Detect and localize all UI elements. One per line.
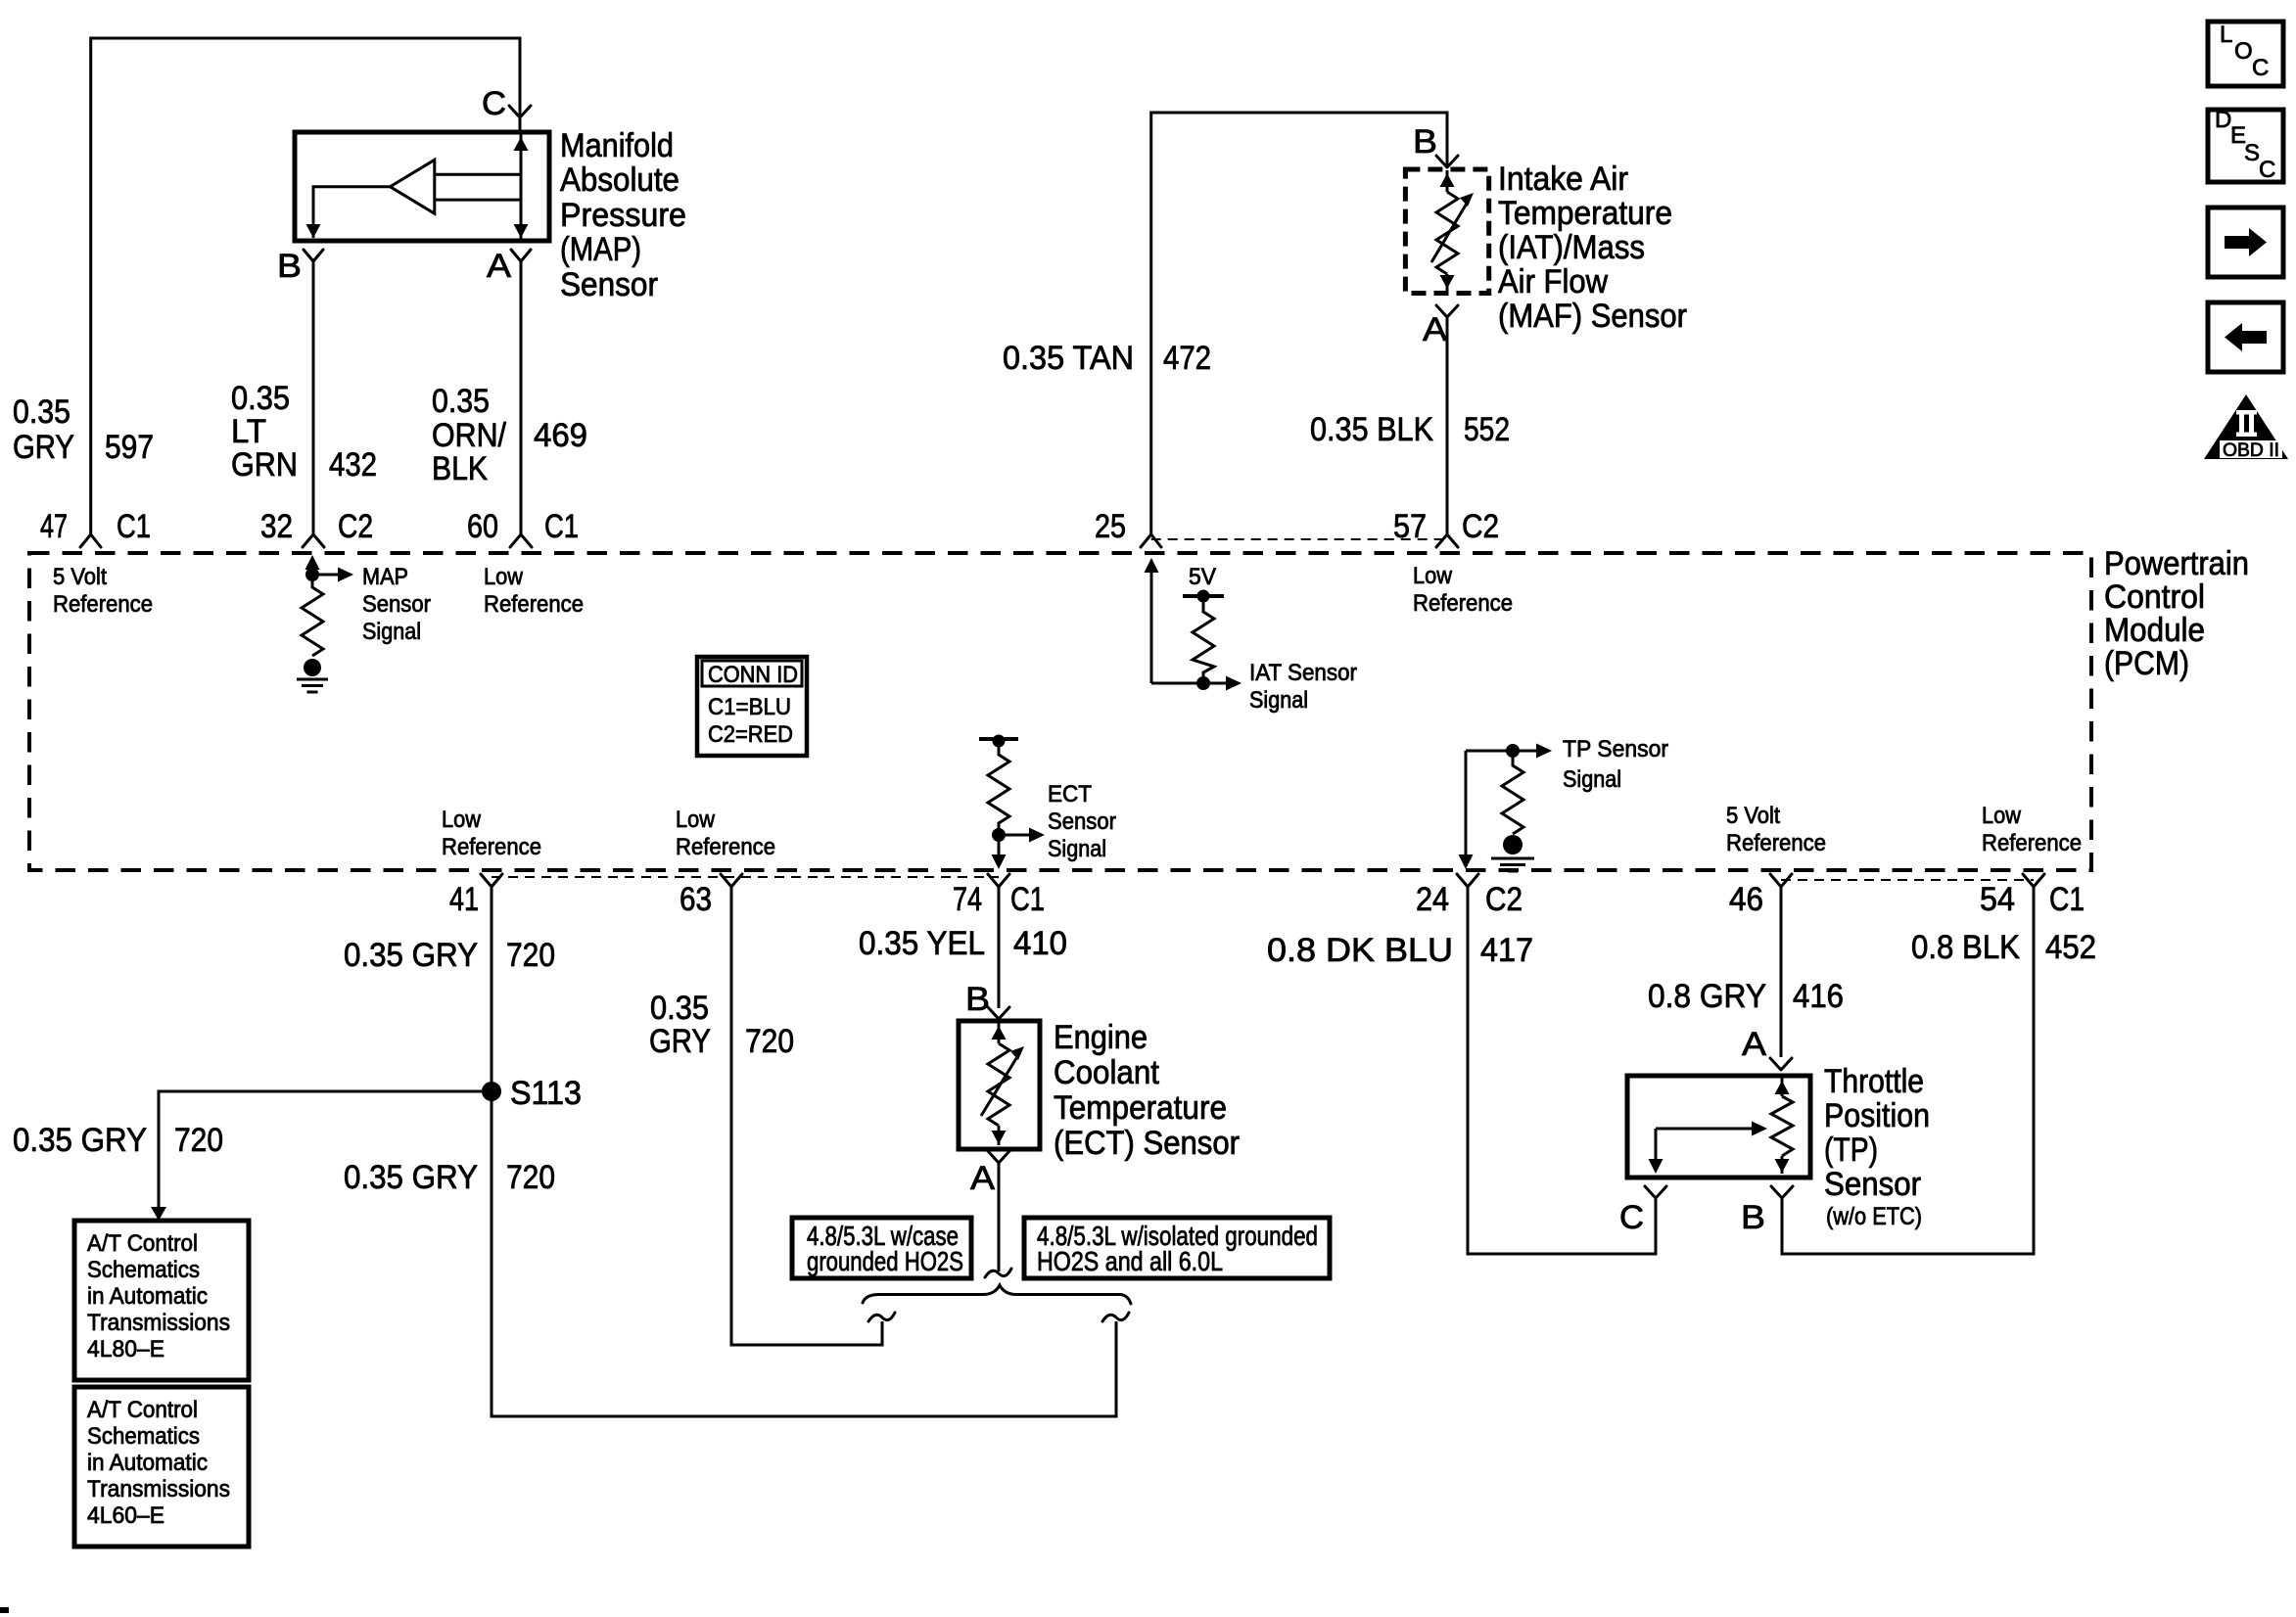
svg-text:(w/o ETC): (w/o ETC) <box>1826 1203 1922 1230</box>
svg-text:IAT Sensor: IAT Sensor <box>1249 660 1357 686</box>
svg-text:S113: S113 <box>510 1075 582 1112</box>
svg-text:C: C <box>1619 1199 1644 1236</box>
pin 47 C1 connector at PCM <box>80 534 101 547</box>
pin 25 connector at PCM <box>1141 534 1161 547</box>
svg-text:A/T Control: A/T Control <box>87 1230 198 1257</box>
svg-text:A: A <box>970 1160 995 1197</box>
svg-text:ECT: ECT <box>1048 781 1092 808</box>
svg-text:Reference: Reference <box>1413 590 1513 617</box>
C1 connector dashed link (pins 41-74) <box>492 876 999 878</box>
svg-text:B: B <box>965 981 990 1018</box>
svg-text:Powertrain: Powertrain <box>2104 545 2249 582</box>
wire 452 (low reference, pin 54 to TP B) <box>1782 887 2034 1254</box>
svg-text:OBD II: OBD II <box>2223 440 2279 461</box>
svg-text:Engine: Engine <box>1054 1019 1148 1056</box>
svg-text:C2: C2 <box>1485 881 1523 918</box>
pin B of MAP sensor (connector) <box>304 250 323 261</box>
wire 720 (low reference, pin 63 to brace) <box>731 887 882 1345</box>
pin 57 C2 connector at PCM <box>1436 534 1458 547</box>
MAP internal top input wire <box>435 173 521 176</box>
svg-text:(TP): (TP) <box>1824 1132 1878 1169</box>
svg-text:Transmissions: Transmissions <box>87 1476 230 1502</box>
svg-text:Throttle: Throttle <box>1824 1063 1924 1100</box>
resistor R-IAT (PCM pull-up) <box>1193 596 1214 683</box>
IAT/MAF sensor dashed box <box>1405 169 1488 294</box>
MAP internal bottom output wire <box>435 199 521 202</box>
svg-text:54: 54 <box>1980 881 2015 918</box>
svg-text:Reference: Reference <box>442 834 541 860</box>
pin 54 C1 connector at PCM <box>2023 874 2044 887</box>
reference box: A/T Control Schematics 4L80-E <box>74 1221 249 1380</box>
MAP sensor box U1 <box>295 132 549 241</box>
svg-text:0.35: 0.35 <box>231 380 290 417</box>
svg-text:0.35 BLK: 0.35 BLK <box>1310 411 1433 448</box>
pin A of TP sensor (connector) <box>1770 1058 1792 1070</box>
TP signal arrow to label <box>1513 750 1536 753</box>
wire break squiggle (left branch) <box>868 1313 895 1321</box>
svg-text:0.35: 0.35 <box>432 383 490 420</box>
svg-text:417: 417 <box>1480 932 1533 969</box>
svg-text:Schematics: Schematics <box>87 1257 200 1283</box>
svg-text:(PCM): (PCM) <box>2104 645 2189 682</box>
svg-text:469: 469 <box>534 417 587 454</box>
svg-text:0.8 DK BLU: 0.8 DK BLU <box>1267 932 1453 969</box>
pin 32 C2 connector at PCM <box>303 534 324 547</box>
node C of MAP sensor (connector) <box>509 106 531 132</box>
svg-text:C2: C2 <box>338 508 373 545</box>
wire 417 (TP signal, pin 24 to TP C) <box>1468 887 1656 1254</box>
svg-text:5 Volt: 5 Volt <box>53 564 107 590</box>
svg-text:GRY: GRY <box>13 429 74 466</box>
svg-text:0.35 GRY: 0.35 GRY <box>13 1122 147 1159</box>
pin B of ECT sensor (connector) <box>988 1007 1009 1019</box>
wire 597 (5V reference, pin 47 to MAP C) <box>91 38 520 534</box>
svg-text:B: B <box>1741 1199 1765 1236</box>
wire 469 (low reference, A to pin 60) <box>520 261 523 534</box>
pin 24 C2 connector at PCM <box>1457 874 1478 887</box>
svg-text:Signal: Signal <box>1249 687 1308 714</box>
MAP internal down arrow to A <box>514 224 529 238</box>
svg-text:A: A <box>1423 311 1447 348</box>
svg-text:552: 552 <box>1464 411 1510 448</box>
svg-text:LT: LT <box>231 413 266 450</box>
svg-text:63: 63 <box>679 881 712 918</box>
pin A of MAP sensor (connector) <box>511 250 531 261</box>
svg-text:BLK: BLK <box>432 450 488 487</box>
svg-text:D: D <box>2215 107 2231 133</box>
svg-text:Low: Low <box>1982 803 2022 829</box>
pin B of IAT/MAF sensor (connector) <box>1436 156 1458 167</box>
svg-text:5 Volt: 5 Volt <box>1726 803 1780 829</box>
wire 720 branch (S113 to A/T schematics) <box>159 1091 492 1208</box>
svg-text:Reference: Reference <box>484 591 584 618</box>
svg-text:C: C <box>2252 55 2269 81</box>
svg-text:4L80–E: 4L80–E <box>87 1336 164 1363</box>
svg-text:Reference: Reference <box>53 591 153 618</box>
pin 60 C1 connector at PCM <box>510 534 532 547</box>
svg-text:Control: Control <box>2104 578 2205 616</box>
scan mark (bottom-left corner artifact) <box>0 1607 9 1613</box>
pin C of TP sensor (connector) <box>1645 1186 1666 1198</box>
svg-text:Position: Position <box>1824 1097 1930 1134</box>
svg-text:0.35 TAN: 0.35 TAN <box>1003 340 1134 377</box>
wire from ECT A down to splice options <box>998 1163 1001 1271</box>
node: ECT signal junction <box>992 828 1006 842</box>
resistor R-TP (PCM pulldown) <box>1502 751 1523 834</box>
pin 41 C1 connector at PCM <box>481 874 502 887</box>
svg-text:Reference: Reference <box>676 834 775 860</box>
IAT thermistor (variable resistor) <box>1446 170 1449 192</box>
svg-text:GRY: GRY <box>649 1023 711 1060</box>
node: MAP signal junction <box>305 568 319 581</box>
PCM module dashed border <box>29 553 2091 870</box>
svg-text:Signal: Signal <box>1563 766 1621 793</box>
svg-text:0.35: 0.35 <box>650 990 709 1027</box>
svg-text:TP Sensor: TP Sensor <box>1563 736 1668 762</box>
svg-text:0.35 GRY: 0.35 GRY <box>344 1159 478 1196</box>
brace (alternatives join) <box>863 1285 1131 1304</box>
wire 432 (MAP signal, B to pin 32) <box>312 261 315 534</box>
svg-text:Sensor: Sensor <box>1048 808 1116 835</box>
pin 63 connector at PCM <box>721 874 742 887</box>
MAP signal input arrow (pin 32) <box>311 560 314 575</box>
svg-text:Manifold: Manifold <box>560 127 674 164</box>
svg-text:Reference: Reference <box>1982 830 2082 856</box>
svg-text:B: B <box>1413 123 1437 161</box>
svg-text:A/T Control: A/T Control <box>87 1397 198 1423</box>
TP wire to pin 24 with down arrow <box>1465 751 1468 855</box>
svg-text:25: 25 <box>1095 508 1126 545</box>
MAP signal arrow to label <box>312 574 338 577</box>
svg-text:Transmissions: Transmissions <box>87 1310 230 1336</box>
svg-text:MAP: MAP <box>362 564 408 590</box>
svg-text:0.8 GRY: 0.8 GRY <box>1648 978 1766 1015</box>
svg-text:C1=BLU: C1=BLU <box>708 694 791 720</box>
svg-text:C2: C2 <box>1462 508 1499 545</box>
svg-text:720: 720 <box>174 1122 223 1159</box>
CONN ID table box <box>697 657 807 756</box>
svg-text:Low: Low <box>676 807 716 833</box>
svg-text:O: O <box>2234 38 2253 65</box>
svg-text:432: 432 <box>329 446 377 484</box>
svg-text:0.35 GRY: 0.35 GRY <box>344 937 478 974</box>
node: TP signal junction <box>1506 744 1520 758</box>
wire 410 (ECT signal, pin 74 to ECT B) <box>998 887 1001 1008</box>
svg-text:Pressure: Pressure <box>560 197 686 234</box>
icon arrow right <box>2208 208 2283 277</box>
resistor R-MAP (PCM internal) <box>302 575 323 656</box>
svg-text:Sensor: Sensor <box>560 266 658 303</box>
pin 74 C1 connector at PCM <box>988 874 1009 887</box>
svg-text:B: B <box>277 248 302 285</box>
svg-text:C1: C1 <box>1010 881 1045 918</box>
svg-text:Air Flow: Air Flow <box>1498 263 1608 300</box>
C2 connector dashed link (pins 25-57) <box>1151 538 1447 540</box>
svg-text:46: 46 <box>1729 881 1763 918</box>
wire 720 (low reference, pin 41 to S113 and brace) <box>492 887 1116 1416</box>
icon OBD II triangle <box>2204 394 2288 459</box>
svg-text:41: 41 <box>449 881 479 918</box>
icon DESC <box>2208 110 2283 182</box>
svg-text:597: 597 <box>105 429 154 466</box>
svg-text:C1: C1 <box>117 508 151 545</box>
reference box: A/T Control Schematics 4L60-E <box>74 1387 249 1547</box>
svg-text:416: 416 <box>1793 978 1844 1015</box>
note box: 4.8/5.3L w/isolated grounded HO2S and all 6.0L <box>1024 1218 1330 1278</box>
variable-resistor diagonal arrow <box>1431 202 1468 262</box>
svg-text:Intake Air: Intake Air <box>1498 161 1628 198</box>
splice S113 <box>482 1082 501 1101</box>
svg-text:C: C <box>2259 157 2275 183</box>
svg-text:grounded HO2S: grounded HO2S <box>807 1246 963 1276</box>
svg-text:GRN: GRN <box>231 446 298 484</box>
C1 connector dashed link (pins 46-54) <box>1781 879 2034 881</box>
svg-text:Signal: Signal <box>362 619 421 645</box>
ECT sensor box <box>959 1021 1040 1149</box>
svg-text:(IAT)/Mass: (IAT)/Mass <box>1498 229 1645 266</box>
svg-text:32: 32 <box>260 508 293 545</box>
svg-text:Temperature: Temperature <box>1498 195 1672 232</box>
svg-text:A: A <box>487 248 511 285</box>
svg-text:452: 452 <box>2045 929 2096 966</box>
resistor R-ECT (PCM internal) <box>988 741 1009 835</box>
icon LOC <box>2208 22 2283 86</box>
svg-text:410: 410 <box>1013 925 1067 962</box>
svg-text:Reference: Reference <box>1726 830 1826 856</box>
TP sensor box <box>1627 1076 1810 1178</box>
svg-text:(MAP): (MAP) <box>560 231 641 268</box>
svg-text:S: S <box>2244 140 2260 166</box>
svg-text:Coolant: Coolant <box>1054 1054 1159 1091</box>
svg-text:60: 60 <box>467 508 498 545</box>
svg-text:(ECT) Sensor: (ECT) Sensor <box>1054 1125 1240 1162</box>
wire break squiggle on ECT A wire <box>985 1269 1011 1277</box>
svg-text:L: L <box>2220 22 2232 48</box>
svg-text:Sensor: Sensor <box>362 591 431 618</box>
svg-text:0.35: 0.35 <box>13 393 70 431</box>
wire break squiggle (right branch) <box>1102 1313 1129 1321</box>
svg-text:4L60–E: 4L60–E <box>87 1502 164 1529</box>
svg-text:Low: Low <box>442 807 482 833</box>
wire 416 (5V reference, pin 46 to TP A) <box>1780 887 1783 1057</box>
icon arrow left <box>2208 302 2283 372</box>
svg-text:in Automatic: in Automatic <box>87 1450 208 1476</box>
wire 552 (low reference, A to pin 57) <box>1446 317 1449 534</box>
TP wiper wire to C with down arrow <box>1655 1129 1658 1160</box>
note box: 4.8/5.3L w/case grounded HO2S <box>792 1218 971 1278</box>
svg-text:5V: 5V <box>1189 564 1216 590</box>
svg-text:C1: C1 <box>2049 881 2085 918</box>
ECT pull-up rail bar <box>979 737 1018 741</box>
svg-text:ORN/: ORN/ <box>432 417 506 454</box>
svg-text:CONN ID: CONN ID <box>708 662 798 688</box>
svg-text:Temperature: Temperature <box>1054 1089 1227 1127</box>
pin B of TP sensor (connector) <box>1771 1186 1793 1198</box>
svg-text:47: 47 <box>40 508 68 545</box>
MAP internal wire to B with down arrow <box>313 187 390 238</box>
ground (TP pulldown) <box>1503 835 1523 855</box>
node: IAT signal junction <box>1196 676 1210 690</box>
svg-text:Schematics: Schematics <box>87 1423 200 1450</box>
svg-text:24: 24 <box>1416 881 1449 918</box>
pin A of ECT sensor (connector) <box>988 1151 1009 1163</box>
svg-text:472: 472 <box>1163 340 1211 377</box>
IAT signal input arrow (pin 25) <box>1150 563 1153 683</box>
svg-text:0.8 BLK: 0.8 BLK <box>1911 929 2020 966</box>
pin 46 connector at PCM <box>1770 874 1792 887</box>
wire 472 (IAT signal, pin 25 to MAF B) <box>1151 113 1447 534</box>
svg-text:C2=RED: C2=RED <box>708 721 793 748</box>
svg-text:Module: Module <box>2104 612 2205 649</box>
svg-text:C1: C1 <box>544 508 579 545</box>
TP signal junction wire <box>1466 750 1513 753</box>
svg-text:720: 720 <box>506 937 555 974</box>
TP potentiometer resistor <box>1781 1077 1784 1096</box>
ground (MAP pulldown) <box>304 659 321 676</box>
svg-text:in Automatic: in Automatic <box>87 1283 208 1310</box>
svg-text:HO2S and all 6.0L: HO2S and all 6.0L <box>1037 1246 1223 1276</box>
svg-text:0.35 YEL: 0.35 YEL <box>859 925 985 962</box>
svg-text:Low: Low <box>484 564 524 590</box>
ECT thermistor (variable resistor) <box>998 1022 1001 1043</box>
pin A of IAT/MAF sensor (connector) <box>1436 305 1458 317</box>
svg-text:74: 74 <box>953 881 982 918</box>
svg-text:C: C <box>482 85 506 122</box>
svg-text:Low: Low <box>1413 563 1453 589</box>
svg-text:A: A <box>1742 1026 1766 1063</box>
svg-text:720: 720 <box>745 1023 794 1060</box>
svg-text:Sensor: Sensor <box>1824 1166 1921 1203</box>
IAT signal arrow to label <box>1203 682 1226 685</box>
svg-text:Signal: Signal <box>1048 836 1106 862</box>
svg-text:Absolute: Absolute <box>560 162 679 199</box>
ECT wire to pin 74 with down arrow <box>998 835 1001 855</box>
svg-text:720: 720 <box>506 1159 555 1196</box>
svg-text:(MAF) Sensor: (MAF) Sensor <box>1498 298 1687 335</box>
MAP internal wire from C (with up arrow) <box>520 135 523 242</box>
5V rail bar <box>1183 594 1224 598</box>
ECT signal arrow to label <box>999 834 1029 837</box>
op-amp buffer inside MAP sensor <box>390 160 434 213</box>
IAT junction wire <box>1151 682 1203 685</box>
variable-resistor diagonal arrow <box>981 1055 1018 1116</box>
TP wiper arrow <box>1656 1128 1752 1131</box>
